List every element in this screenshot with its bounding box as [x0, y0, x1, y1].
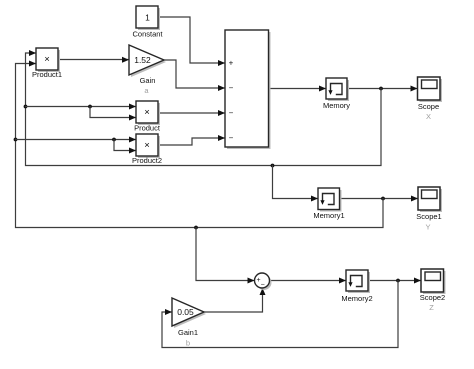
svg-text:Gain1: Gain1 [178, 328, 198, 337]
node Z junction on Memory2-Scope2 wire [396, 279, 400, 283]
svg-text:−: − [229, 84, 234, 93]
wire X branch to Product input 1 [26, 104, 137, 110]
wire Y branch to Product2 input 2 [114, 140, 136, 154]
svg-text:−: − [229, 109, 234, 118]
node junction X feedback to Memory1 branch [271, 164, 275, 168]
scope block Scope2 [421, 269, 446, 294]
svg-text:Y: Y [425, 223, 430, 232]
svg-text:Z: Z [429, 303, 434, 312]
wire Constant to Sum input 1 [158, 17, 225, 66]
svg-text:1: 1 [145, 13, 150, 23]
svg-text:Gain: Gain [140, 76, 156, 85]
svg-text:Product2: Product2 [132, 156, 162, 165]
wire Sum output to Memory [269, 86, 327, 92]
wire Memory2 to Scope2 (net Z) [368, 278, 421, 284]
product block Product2 [136, 134, 160, 158]
sum circle block Add1 [255, 273, 272, 290]
constant block Constant value 1 [136, 6, 160, 30]
node Y junction on Memory1-Scope1 wire [381, 197, 385, 201]
wire Product2 to Sum input 4 [158, 135, 225, 145]
wire Gain to Sum input 2 [164, 60, 225, 91]
svg-text:b: b [186, 339, 190, 348]
svg-text:1.52: 1.52 [134, 55, 151, 65]
wire sum circle to Memory2 [270, 278, 347, 284]
sum block Add (+ - - -) [225, 30, 271, 149]
wire Y branch to Product2 input 1 [16, 137, 137, 143]
svg-text:Product1: Product1 [32, 70, 62, 79]
wire X feedback to Product1 input 1 [26, 50, 382, 166]
gain block Gain1 value 0.05 [172, 298, 206, 328]
svg-text:Memory2: Memory2 [341, 294, 372, 303]
node junction Y feedback to Product2 branch [14, 138, 18, 142]
node junction Y feedback to sum circle branch [194, 226, 198, 230]
wire X branch to Memory1 [273, 166, 319, 202]
gain block Gain value 1.52 [129, 45, 166, 77]
svg-text:a: a [144, 86, 149, 95]
wire Z feedback to Gain1 [162, 281, 398, 348]
svg-text:×: × [144, 107, 150, 118]
svg-text:−: − [261, 282, 265, 289]
product block Product [136, 101, 160, 125]
svg-text:Memory1: Memory1 [313, 211, 344, 220]
wire Y feedback to Product1 input 2 [16, 61, 384, 228]
svg-text:×: × [44, 54, 50, 65]
svg-text:Constant: Constant [132, 30, 163, 39]
svg-text:Scope: Scope [418, 102, 439, 111]
svg-text:0.05: 0.05 [177, 307, 194, 317]
wire Memory to Scope (net X) [347, 86, 418, 92]
svg-text:Scope2: Scope2 [420, 293, 445, 302]
scope block Scope1 [418, 187, 442, 212]
svg-text:Memory: Memory [323, 101, 350, 110]
node junction X squared branch [88, 105, 92, 109]
wire Product to Sum input 3 [158, 110, 225, 116]
svg-text:Product: Product [134, 123, 161, 132]
wire Y branch to sum circle plus input [196, 228, 255, 284]
node junction Y squared branch [112, 138, 116, 142]
memory block Memory [326, 78, 349, 101]
product block Product1 [36, 48, 60, 72]
node junction X feedback to Product branch [24, 105, 28, 109]
memory block Memory2 [346, 270, 370, 293]
wire Gain1 to sum circle minus input [204, 288, 266, 312]
svg-text:+: + [229, 59, 234, 68]
node X junction on Memory-Scope wire [379, 87, 383, 91]
svg-text:Scope1: Scope1 [416, 212, 441, 221]
wire Memory1 to Scope1 (net Y) [340, 196, 419, 202]
wire Product1 to Gain [58, 57, 129, 63]
svg-text:×: × [144, 140, 150, 151]
svg-text:−: − [229, 134, 234, 143]
svg-text:X: X [426, 112, 431, 121]
wire X branch to Product input 2 [90, 107, 136, 121]
memory block Memory1 [318, 188, 342, 212]
scope block Scope [418, 77, 443, 102]
